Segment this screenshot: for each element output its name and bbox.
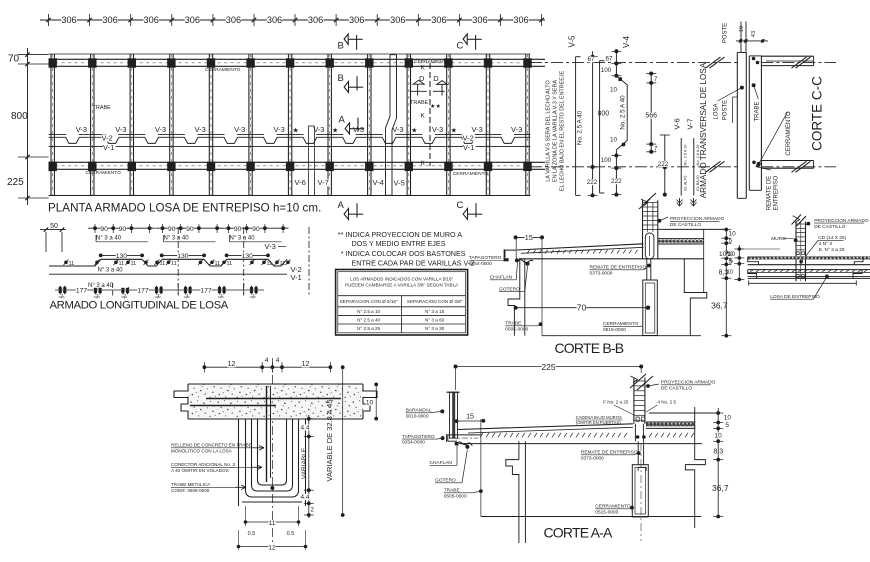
svg-text:V-1: V-1 bbox=[463, 143, 474, 152]
svg-text:5: 5 bbox=[729, 238, 733, 245]
svg-text:CADENA BAJO MUROS: CADENA BAJO MUROS bbox=[576, 415, 622, 420]
svg-text:EL ALTO: EL ALTO bbox=[684, 175, 688, 190]
svg-text:0373-0000: 0373-0000 bbox=[590, 271, 613, 277]
svg-text:ARMADO TRANSVERSAL DE LOSA: ARMADO TRANSVERSAL DE LOSA bbox=[699, 62, 708, 198]
svg-text:V-7: V-7 bbox=[685, 118, 694, 129]
svg-text:N° 2.5 a 25: N° 2.5 a 25 bbox=[357, 326, 380, 331]
svg-text:12: 12 bbox=[302, 361, 310, 368]
svg-text:12: 12 bbox=[228, 361, 236, 368]
svg-text:VARIABLE: VARIABLE bbox=[301, 447, 308, 479]
svg-text:C: C bbox=[457, 41, 464, 52]
svg-text:10: 10 bbox=[724, 415, 732, 422]
svg-text:222: 222 bbox=[587, 179, 598, 186]
svg-text:222: 222 bbox=[658, 161, 669, 168]
svg-text:CORTE A-A: CORTE A-A bbox=[544, 524, 613, 540]
svg-text:11: 11 bbox=[280, 261, 286, 267]
svg-text:* INDICA COLOCAR DOS BASTONES: * INDICA COLOCAR DOS BASTONES bbox=[341, 249, 466, 258]
svg-text:B: B bbox=[338, 73, 344, 84]
svg-text:CORTE B-B: CORTE B-B bbox=[555, 340, 624, 356]
svg-text:★: ★ bbox=[292, 127, 298, 135]
svg-text:0515-0000: 0515-0000 bbox=[603, 327, 626, 333]
svg-text:DE CASTILLO: DE CASTILLO bbox=[661, 386, 692, 392]
svg-text:11: 11 bbox=[269, 520, 276, 527]
svg-text:EN LA ZONA DE LA VARILLA V-3 Y: EN LA ZONA DE LA VARILLA V-3 Y SERA bbox=[553, 80, 559, 182]
svg-text:306: 306 bbox=[185, 15, 200, 25]
svg-text:70: 70 bbox=[577, 303, 587, 313]
svg-text:11: 11 bbox=[171, 261, 177, 267]
svg-text:10: 10 bbox=[366, 400, 374, 407]
svg-text:No. 2.5 A 10: No. 2.5 A 10 bbox=[684, 145, 688, 166]
svg-text:N° 3 a 40: N° 3 a 40 bbox=[230, 236, 256, 242]
svg-text:★: ★ bbox=[451, 127, 457, 135]
svg-text:306: 306 bbox=[431, 15, 446, 25]
svg-text:11: 11 bbox=[69, 261, 75, 267]
svg-text:V-3: V-3 bbox=[274, 125, 285, 134]
svg-text:0373-0000: 0373-0000 bbox=[581, 456, 604, 462]
svg-text:4: 4 bbox=[265, 357, 269, 364]
svg-text:V-5: V-5 bbox=[394, 179, 405, 188]
svg-text:V-5: V-5 bbox=[567, 35, 576, 48]
svg-text:67: 67 bbox=[587, 56, 595, 63]
svg-text:★★: ★★ bbox=[430, 103, 441, 110]
svg-text:No. 2.5 A 40: No. 2.5 A 40 bbox=[577, 110, 584, 145]
svg-text:VARIABLE DE 32.8 A 45: VARIABLE DE 32.8 A 45 bbox=[325, 400, 334, 482]
svg-text:V-3: V-3 bbox=[392, 125, 403, 134]
svg-text:V-4: V-4 bbox=[373, 178, 384, 187]
svg-text:36,7: 36,7 bbox=[712, 483, 729, 493]
svg-text:C: C bbox=[457, 200, 464, 211]
svg-text:ARMADO LONGITUDINAL DE LOSA: ARMADO LONGITUDINAL DE LOSA bbox=[50, 300, 229, 312]
svg-text:177: 177 bbox=[200, 287, 212, 294]
svg-text:90: 90 bbox=[119, 226, 127, 233]
svg-text:V-2: V-2 bbox=[463, 133, 474, 142]
svg-text:V-1: V-1 bbox=[291, 273, 302, 282]
svg-text:N° 2.5 a 10: N° 2.5 a 10 bbox=[357, 309, 380, 314]
svg-text:10: 10 bbox=[727, 270, 733, 276]
svg-text:4.4: 4.4 bbox=[301, 425, 310, 432]
svg-text:A 40 OMITIR EN VOLADOS: A 40 OMITIR EN VOLADOS bbox=[171, 468, 229, 473]
svg-text:V-3: V-3 bbox=[234, 125, 245, 134]
svg-text:CONECTOR ADICIONAL No. 3: CONECTOR ADICIONAL No. 3 bbox=[171, 462, 236, 467]
svg-text:177: 177 bbox=[76, 287, 88, 294]
svg-text:50: 50 bbox=[50, 223, 58, 230]
svg-text:0.5: 0.5 bbox=[287, 531, 295, 537]
svg-text:10: 10 bbox=[727, 252, 733, 258]
svg-text:★: ★ bbox=[332, 127, 338, 135]
svg-text:0254-0000: 0254-0000 bbox=[402, 440, 425, 446]
svg-text:D: D bbox=[433, 74, 439, 83]
svg-text:10: 10 bbox=[715, 433, 723, 440]
svg-text:LOSA: LOSA bbox=[714, 103, 720, 119]
svg-text:PUEDEN CAMBIARSE A VARILLA 3/8: PUEDEN CAMBIARSE A VARILLA 3/8" SEGUN TA… bbox=[345, 283, 459, 288]
svg-text:90: 90 bbox=[186, 226, 194, 233]
svg-text:N° 3 a 40: N° 3 a 40 bbox=[96, 236, 122, 242]
svg-text:V-6: V-6 bbox=[295, 178, 306, 187]
svg-text:CERRAMIENTO: CERRAMIENTO bbox=[453, 171, 489, 177]
svg-text:100: 100 bbox=[601, 67, 612, 74]
svg-text:15: 15 bbox=[466, 414, 474, 421]
svg-text:N° 3 a 60: N° 3 a 60 bbox=[425, 318, 445, 323]
svg-text:7: 7 bbox=[252, 295, 255, 301]
svg-text:TRABE: TRABE bbox=[410, 100, 429, 106]
svg-text:TRABE: TRABE bbox=[754, 101, 760, 121]
svg-text:100: 100 bbox=[601, 157, 612, 164]
svg-text:0515-0000: 0515-0000 bbox=[595, 510, 618, 516]
svg-text:CERRAMIENTO: CERRAMIENTO bbox=[414, 59, 450, 65]
svg-text:V-3: V-3 bbox=[195, 125, 206, 134]
svg-text:90: 90 bbox=[168, 226, 176, 233]
svg-text:N° 3 a 40: N° 3 a 40 bbox=[164, 236, 190, 242]
svg-text:CERRAMIENTO: CERRAMIENTO bbox=[86, 170, 122, 176]
svg-text:CERRAMIENTO: CERRAMIENTO bbox=[786, 111, 792, 156]
svg-text:43: 43 bbox=[751, 31, 757, 37]
svg-text:V-4: V-4 bbox=[622, 35, 631, 48]
svg-text:N° 3 a 40: N° 3 a 40 bbox=[98, 268, 124, 274]
svg-text:800: 800 bbox=[11, 111, 28, 122]
svg-text:15: 15 bbox=[525, 233, 533, 242]
svg-text:V-6: V-6 bbox=[672, 118, 681, 129]
svg-text:V-1: V-1 bbox=[103, 143, 114, 152]
svg-text:CODIF. 0508-0000: CODIF. 0508-0000 bbox=[171, 488, 210, 493]
svg-text:E. N° 2 a 25: E. N° 2 a 25 bbox=[819, 247, 845, 253]
svg-text:12: 12 bbox=[268, 545, 276, 552]
svg-text:No. 2.5 A 40: No. 2.5 A 40 bbox=[620, 95, 627, 130]
svg-text:0505-0000: 0505-0000 bbox=[444, 494, 467, 500]
svg-text:566: 566 bbox=[645, 113, 657, 120]
svg-text:10: 10 bbox=[719, 251, 727, 258]
svg-text:222: 222 bbox=[611, 178, 622, 185]
svg-text:306: 306 bbox=[513, 15, 528, 25]
svg-text:N° 3 a 15: N° 3 a 15 bbox=[425, 309, 445, 314]
svg-text:DE CASTILLO: DE CASTILLO bbox=[670, 222, 701, 228]
svg-text:V-3: V-3 bbox=[265, 242, 276, 251]
svg-text:CERRAMIENTO: CERRAMIENTO bbox=[205, 67, 241, 73]
svg-text:POSTE: POSTE bbox=[723, 100, 729, 120]
svg-text:5: 5 bbox=[725, 422, 729, 429]
svg-text:(OMITIR EN PUERTAS): (OMITIR EN PUERTAS) bbox=[576, 420, 622, 425]
svg-text:MURO: MURO bbox=[771, 236, 786, 242]
svg-text:306: 306 bbox=[102, 15, 117, 25]
svg-text:A: A bbox=[338, 200, 345, 211]
svg-text:11: 11 bbox=[215, 261, 221, 267]
svg-text:177: 177 bbox=[137, 287, 149, 294]
svg-text:N° 3 a 40: N° 3 a 40 bbox=[88, 283, 114, 289]
svg-text:** INDICA PROYECCION DE MURO A: ** INDICA PROYECCION DE MURO A bbox=[338, 230, 462, 239]
svg-text:ENTRE CADA PAR DE VARILLAS V-2: ENTRE CADA PAR DE VARILLAS V-2 bbox=[352, 258, 475, 267]
svg-text:5: 5 bbox=[730, 259, 733, 265]
svg-text:V-3: V-3 bbox=[511, 125, 522, 134]
svg-text:K: K bbox=[421, 65, 426, 72]
svg-text:MONOLITICO CON LA LOSA: MONOLITICO CON LA LOSA bbox=[171, 448, 233, 453]
svg-text:EL LECHO BAJO EN EL RESTO DEL: EL LECHO BAJO EN EL RESTO DEL ENTREEJE bbox=[560, 70, 566, 191]
svg-text:REMATE DE: REMATE DE bbox=[767, 176, 773, 211]
svg-text:A: A bbox=[339, 115, 346, 126]
svg-text:4 N° 3: 4 N° 3 bbox=[819, 241, 833, 247]
svg-text:8,3: 8,3 bbox=[713, 449, 723, 456]
svg-text:V-7: V-7 bbox=[318, 178, 329, 187]
svg-text:B: B bbox=[338, 41, 344, 52]
svg-text:PLANTA ARMADO LOSA DE ENTREPIS: PLANTA ARMADO LOSA DE ENTREPISO h=10 cm. bbox=[48, 202, 321, 215]
svg-text:90: 90 bbox=[252, 226, 260, 233]
svg-text:225: 225 bbox=[541, 362, 555, 372]
svg-text:36,7: 36,7 bbox=[711, 301, 728, 311]
svg-text:N° 3 a 30: N° 3 a 30 bbox=[425, 326, 445, 331]
svg-text:4.4: 4.4 bbox=[301, 494, 310, 501]
svg-text:306: 306 bbox=[308, 15, 323, 25]
svg-text:306: 306 bbox=[349, 15, 364, 25]
svg-text:SEPARACION CON Ø 3/8": SEPARACION CON Ø 3/8" bbox=[407, 299, 463, 304]
svg-text:10: 10 bbox=[729, 231, 737, 238]
svg-text:V-2: V-2 bbox=[102, 133, 113, 142]
svg-text:0010-0000: 0010-0000 bbox=[406, 414, 429, 420]
svg-text:V-3: V-3 bbox=[432, 125, 443, 134]
svg-text:K: K bbox=[421, 113, 426, 120]
svg-text:DOS Y MEDIO ENTRE EJES: DOS Y MEDIO ENTRE EJES bbox=[352, 239, 446, 248]
svg-text:306: 306 bbox=[61, 15, 76, 25]
svg-text:RELLENO DE CONCRETO EN TRABE: RELLENO DE CONCRETO EN TRABE bbox=[171, 443, 252, 448]
svg-text:4 No. 2.5: 4 No. 2.5 bbox=[657, 400, 676, 405]
svg-text:225: 225 bbox=[7, 177, 24, 188]
svg-text:10: 10 bbox=[610, 87, 618, 94]
svg-text:TRABE METALICA: TRABE METALICA bbox=[171, 482, 211, 487]
svg-text:306: 306 bbox=[390, 15, 405, 25]
svg-text:67: 67 bbox=[605, 55, 613, 62]
svg-text:V-3: V-3 bbox=[115, 125, 126, 134]
svg-text:SEPARACION CON Ø 5/16": SEPARACION CON Ø 5/16" bbox=[340, 299, 398, 304]
svg-text:POSTE: POSTE bbox=[723, 23, 729, 43]
svg-text:10: 10 bbox=[739, 26, 745, 32]
svg-text:LOS ARMADOS INDICADOS CON VARI: LOS ARMADOS INDICADOS CON VARILLA 5/16" bbox=[350, 277, 454, 282]
svg-text:F No. 2 a 25: F No. 2 a 25 bbox=[603, 400, 629, 405]
svg-text:CORTE C-C: CORTE C-C bbox=[810, 76, 825, 151]
svg-text:10: 10 bbox=[610, 136, 618, 143]
svg-text:70: 70 bbox=[8, 54, 20, 65]
svg-text:306: 306 bbox=[226, 15, 241, 25]
svg-text:K: K bbox=[421, 160, 426, 167]
svg-text:0254-0000: 0254-0000 bbox=[469, 261, 492, 267]
svg-text:11: 11 bbox=[267, 261, 273, 267]
svg-text:11: 11 bbox=[119, 261, 125, 267]
svg-text:LA VARILLA V-5 SERA DEL LECHO: LA VARILLA V-5 SERA DEL LECHO ALTO bbox=[546, 80, 552, 181]
svg-text:306: 306 bbox=[472, 15, 487, 25]
svg-text:11: 11 bbox=[227, 261, 233, 267]
svg-text:N° 2.5 a 40: N° 2.5 a 40 bbox=[357, 318, 380, 323]
svg-text:90: 90 bbox=[100, 226, 108, 233]
svg-text:ENTREPISO: ENTREPISO bbox=[773, 175, 779, 210]
svg-text:11: 11 bbox=[131, 261, 137, 267]
svg-text:11: 11 bbox=[160, 261, 166, 267]
svg-text:4: 4 bbox=[276, 357, 280, 364]
svg-text:90: 90 bbox=[234, 226, 242, 233]
svg-text:DE CASTILLO: DE CASTILLO bbox=[814, 224, 845, 230]
svg-text:306: 306 bbox=[267, 15, 282, 25]
svg-text:V-3: V-3 bbox=[155, 125, 166, 134]
svg-text:V-3: V-3 bbox=[76, 125, 87, 134]
svg-text:TRABE: TRABE bbox=[93, 105, 112, 111]
svg-text:306: 306 bbox=[144, 15, 159, 25]
svg-text:0.5: 0.5 bbox=[248, 531, 256, 537]
svg-text:★: ★ bbox=[411, 127, 417, 135]
